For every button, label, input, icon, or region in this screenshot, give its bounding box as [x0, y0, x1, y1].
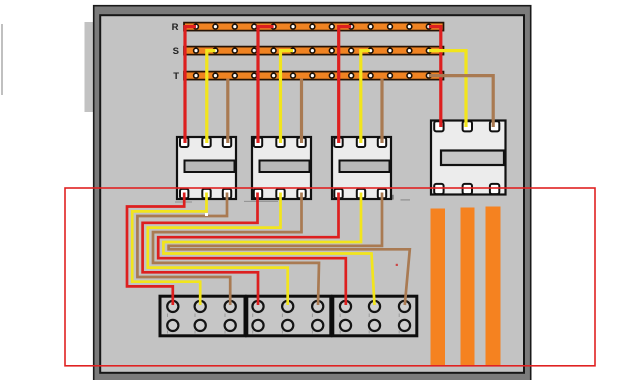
wire CB2-TB2 L2 (yellow)	[148, 193, 288, 306]
wire T-CB1 (brown)	[226, 79, 229, 144]
wire R-CB3 (red)	[339, 27, 352, 143]
wire S-CB4 (yellow)	[429, 51, 466, 127]
wire CB2-TB2 L3 (brown)	[153, 193, 319, 306]
wire S-CB3 (yellow)	[361, 51, 370, 143]
enclosure inner panel	[100, 15, 524, 373]
wire CB3-TB3 L3 (brown)	[169, 193, 410, 306]
gray mark under CB2	[244, 200, 278, 202]
breaker CB2 body	[252, 137, 311, 199]
orange bar 2	[461, 208, 475, 367]
enclosure outer frame	[94, 6, 531, 380]
busbar S	[184, 47, 444, 55]
white dot artifact	[205, 213, 208, 216]
terminal block TB2	[247, 296, 331, 336]
terminal block TB3	[333, 296, 417, 336]
wire S-CB2 (yellow)	[281, 51, 294, 143]
wire CB3-TB3 L2 (yellow)	[163, 193, 374, 306]
wire R-CB2 (red)	[258, 27, 274, 143]
breaker CB4 body	[431, 121, 506, 195]
red selection rectangle	[65, 188, 595, 366]
breaker CB3 body	[332, 137, 391, 199]
busbar T	[184, 72, 444, 80]
wire CB2-TB2 L1 (red)	[143, 193, 258, 306]
wire CB1-TB1 L1 (red)	[127, 193, 184, 306]
wire CB1-TB1 L2 (yellow)	[132, 193, 206, 306]
red dot artifact	[396, 264, 398, 266]
svg-text:R: R	[172, 22, 179, 33]
left edge strip	[1, 24, 3, 95]
breaker CB1 body	[177, 137, 236, 199]
gray mark under CB1	[175, 201, 192, 203]
terminal block TB1	[160, 296, 245, 336]
orange bar 1	[431, 209, 446, 367]
gray dash right of CB3	[401, 199, 411, 201]
wire T-CB4 (brown)	[429, 76, 493, 127]
left mounting tab	[85, 22, 94, 112]
wire T-CB2 (brown)	[300, 79, 303, 144]
svg-text:T: T	[173, 71, 179, 82]
busbar R	[184, 23, 444, 31]
svg-text:S: S	[173, 46, 179, 57]
wire T-CB3 (brown)	[380, 79, 383, 144]
wire CB3-TB3 L1 (red)	[158, 193, 346, 306]
wire S-CB1 (yellow)	[207, 51, 216, 143]
orange bar 3	[486, 207, 501, 367]
wire CB1-TB1 L3 (brown)	[137, 193, 230, 306]
gray tick right of CB3	[392, 195, 394, 200]
wire R-CB4 (red)	[429, 27, 441, 127]
wire R-CB1 (red)	[185, 27, 196, 143]
